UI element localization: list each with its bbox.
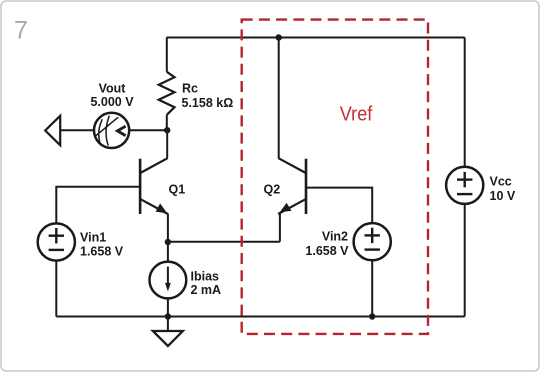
- svg-text:Q2: Q2: [264, 182, 281, 196]
- svg-text:Vin1: Vin1: [80, 231, 106, 245]
- svg-text:Q1: Q1: [169, 182, 186, 196]
- wire Q2 collector vertical: [278, 38, 280, 159]
- svg-text:Vout: Vout: [99, 81, 127, 95]
- wire Q1 collector vertical: [166, 130, 168, 159]
- wire Vin2 bottom lead: [371, 261, 373, 317]
- wire Q2 base feed: [306, 188, 372, 224]
- svg-text:Ibias: Ibias: [191, 269, 220, 283]
- voltage source Vcc: [446, 167, 483, 204]
- svg-text:Vref: Vref: [340, 103, 373, 126]
- port arrow Vout terminal: [45, 116, 60, 145]
- svg-text:1.658 V: 1.658 V: [80, 245, 124, 259]
- wire bottom rail: [56, 316, 464, 318]
- resistor Rc: [159, 38, 175, 131]
- voltage source Vin2: [354, 223, 391, 260]
- node top rail junction: [276, 34, 282, 40]
- svg-text:Vcc: Vcc: [490, 174, 512, 188]
- svg-text:7: 7: [14, 17, 28, 45]
- wire ground stub: [167, 317, 169, 332]
- voltmeter Vout probe: [94, 113, 129, 148]
- wire top rail: [167, 37, 465, 39]
- wire Q1 emitter vertical: [167, 214, 169, 242]
- wire Vin1 bottom lead: [55, 261, 57, 317]
- svg-text:10 V: 10 V: [490, 189, 516, 203]
- svg-text:Rc: Rc: [182, 82, 198, 96]
- node emitter junction: [165, 239, 171, 245]
- wire Vcc top: [464, 38, 466, 168]
- wire Vcc bottom: [464, 204, 466, 317]
- transistor Q1: [140, 158, 168, 214]
- node Vin2 bottom junction: [369, 313, 375, 319]
- svg-text:5.000 V: 5.000 V: [90, 95, 134, 109]
- ground: [153, 331, 183, 346]
- wire voltmeter right: [129, 129, 167, 131]
- voltage source Vin1: [38, 223, 75, 260]
- wire Vin1 top lead and base feed: [56, 187, 140, 224]
- node ground junction: [165, 313, 171, 319]
- wire Ibias top lead: [167, 242, 169, 262]
- wire Ibias bottom lead: [167, 298, 169, 316]
- wire Q2 emitter vertical: [279, 214, 281, 242]
- current source Ibias: [150, 262, 187, 299]
- node collector junction: [164, 127, 170, 133]
- svg-text:2 mA: 2 mA: [191, 283, 222, 297]
- svg-text:5.158 kΩ: 5.158 kΩ: [182, 96, 234, 110]
- svg-text:1.658 V: 1.658 V: [305, 244, 349, 258]
- svg-text:Vin2: Vin2: [322, 230, 348, 244]
- transistor Q2: [278, 158, 306, 214]
- Vref region box: [242, 20, 428, 334]
- wire voltmeter left: [60, 129, 94, 131]
- wire emitter rail: [168, 241, 280, 243]
